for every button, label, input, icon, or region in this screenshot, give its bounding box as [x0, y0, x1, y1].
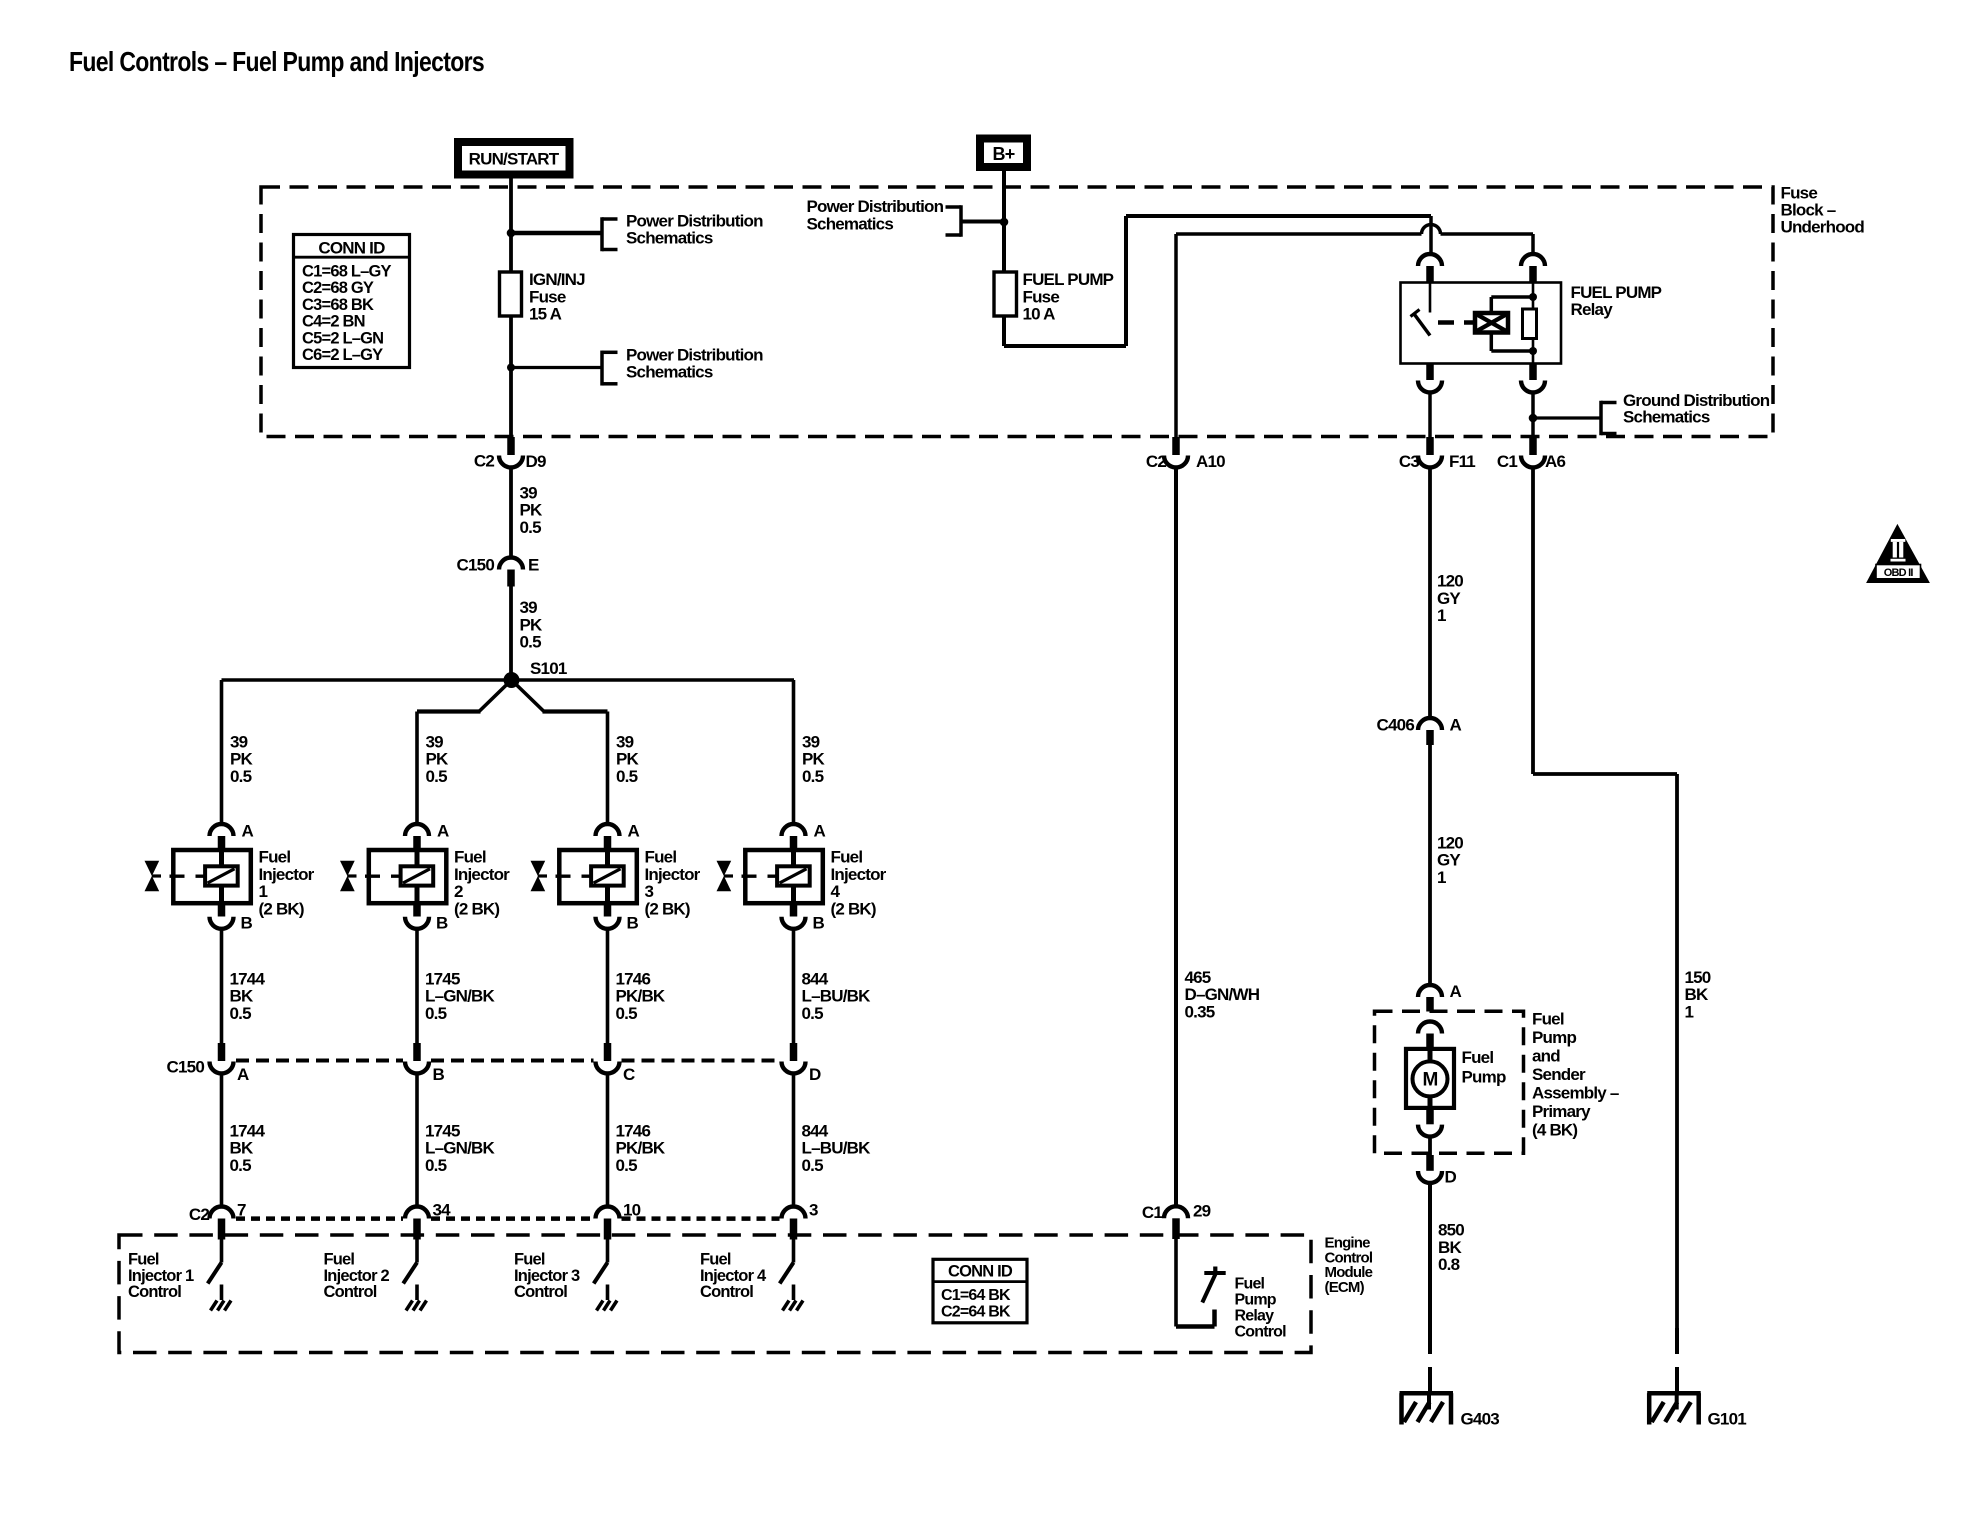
svg-text:39: 39	[426, 732, 444, 751]
svg-text:Injector: Injector	[454, 865, 510, 884]
svg-text:Fuel: Fuel	[1532, 1010, 1564, 1029]
svg-text:Fuel: Fuel	[514, 1251, 545, 1269]
svg-text:0.5: 0.5	[616, 1156, 638, 1175]
svg-text:Fuel Controls – Fuel Pump and: Fuel Controls – Fuel Pump and Injectors	[69, 46, 484, 77]
svg-text:F11: F11	[1449, 452, 1475, 471]
svg-text:G101: G101	[1708, 1410, 1747, 1429]
svg-text:M: M	[1422, 1070, 1437, 1091]
svg-text:0.5: 0.5	[426, 767, 448, 786]
svg-text:Schematics: Schematics	[626, 229, 713, 248]
svg-text:FUEL PUMP: FUEL PUMP	[1571, 283, 1662, 302]
svg-text:0.5: 0.5	[802, 1156, 824, 1175]
svg-text:B: B	[433, 1065, 445, 1084]
svg-text:39: 39	[520, 598, 538, 617]
svg-text:A: A	[242, 822, 254, 841]
svg-text:0.5: 0.5	[230, 767, 252, 786]
svg-text:A: A	[1450, 982, 1462, 1001]
svg-text:CONN ID: CONN ID	[318, 239, 385, 258]
svg-text:Injector: Injector	[259, 865, 315, 884]
svg-text:1744: 1744	[230, 969, 266, 988]
svg-text:1: 1	[1437, 868, 1446, 887]
svg-text:Fuse: Fuse	[529, 287, 566, 306]
svg-text:A: A	[814, 822, 826, 841]
svg-text:1746: 1746	[616, 1121, 651, 1140]
svg-text:D: D	[1445, 1168, 1457, 1187]
svg-text:0.5: 0.5	[802, 767, 824, 786]
svg-text:IGN/INJ: IGN/INJ	[529, 270, 585, 289]
svg-text:(2 BK): (2 BK)	[645, 899, 690, 918]
svg-text:Fuel: Fuel	[324, 1251, 355, 1269]
svg-text:(4 BK): (4 BK)	[1532, 1121, 1577, 1140]
svg-text:PK: PK	[230, 750, 254, 769]
svg-text:C150: C150	[167, 1058, 205, 1077]
svg-text:C1=64 BK: C1=64 BK	[941, 1287, 1011, 1304]
svg-text:BK: BK	[230, 987, 254, 1006]
svg-text:L–GN/BK: L–GN/BK	[425, 1139, 496, 1158]
svg-text:L–GN/BK: L–GN/BK	[425, 987, 496, 1006]
svg-text:C2: C2	[189, 1205, 209, 1224]
svg-text:C: C	[623, 1065, 635, 1084]
svg-text:1745: 1745	[425, 969, 460, 988]
svg-text:A10: A10	[1196, 452, 1225, 471]
svg-text:C1: C1	[1497, 452, 1517, 471]
svg-text:A: A	[628, 822, 640, 841]
svg-text:(2 BK): (2 BK)	[259, 899, 304, 918]
svg-text:1745: 1745	[425, 1121, 460, 1140]
svg-text:C6=2 L–GY: C6=2 L–GY	[302, 346, 383, 364]
svg-text:Primary: Primary	[1532, 1102, 1591, 1121]
svg-text:0.5: 0.5	[425, 1004, 447, 1023]
svg-text:Fuel: Fuel	[1462, 1048, 1494, 1067]
svg-text:Relay: Relay	[1571, 300, 1614, 319]
svg-text:Sender: Sender	[1532, 1065, 1586, 1084]
svg-text:A6: A6	[1545, 452, 1565, 471]
svg-text:PK/BK: PK/BK	[616, 1139, 666, 1158]
svg-text:29: 29	[1193, 1202, 1211, 1221]
svg-text:BK: BK	[1438, 1238, 1462, 1257]
svg-text:Control: Control	[1235, 1324, 1287, 1341]
svg-text:Pump: Pump	[1532, 1028, 1576, 1047]
svg-text:L–BU/BK: L–BU/BK	[802, 1139, 872, 1158]
svg-text:GY: GY	[1437, 851, 1461, 870]
svg-text:Control: Control	[700, 1283, 753, 1301]
svg-text:Schematics: Schematics	[807, 214, 894, 233]
svg-text:844: 844	[802, 1121, 829, 1140]
svg-text:Assembly –: Assembly –	[1532, 1084, 1619, 1103]
svg-text:C2=64 BK: C2=64 BK	[941, 1303, 1011, 1320]
svg-text:G403: G403	[1461, 1410, 1500, 1429]
svg-text:S101: S101	[530, 659, 567, 678]
svg-text:C150: C150	[457, 556, 495, 575]
svg-text:Injector 4: Injector 4	[700, 1267, 767, 1285]
svg-text:Injector 1: Injector 1	[128, 1267, 194, 1285]
svg-text:0.5: 0.5	[520, 518, 542, 537]
svg-text:4: 4	[831, 882, 841, 901]
svg-text:0.5: 0.5	[520, 633, 542, 652]
svg-text:2: 2	[454, 882, 463, 901]
svg-text:(ECM): (ECM)	[1325, 1279, 1365, 1296]
svg-text:Power Distribution: Power Distribution	[626, 211, 763, 230]
svg-text:39: 39	[802, 732, 820, 751]
svg-text:PK: PK	[426, 750, 450, 769]
svg-text:Injector: Injector	[831, 865, 887, 884]
svg-text:D: D	[809, 1065, 821, 1084]
svg-text:Pump: Pump	[1462, 1068, 1506, 1087]
svg-text:L–BU/BK: L–BU/BK	[802, 987, 872, 1006]
svg-text:PK: PK	[520, 615, 544, 634]
svg-text:465: 465	[1185, 968, 1211, 987]
svg-text:A: A	[237, 1065, 249, 1084]
svg-text:0.5: 0.5	[616, 767, 638, 786]
svg-text:0.8: 0.8	[1438, 1255, 1460, 1274]
svg-text:(2 BK): (2 BK)	[831, 899, 876, 918]
svg-text:B: B	[627, 914, 639, 933]
svg-text:C3=68 BK: C3=68 BK	[302, 296, 374, 314]
svg-text:C1=68 L–GY: C1=68 L–GY	[302, 263, 392, 281]
svg-text:Power Distribution: Power Distribution	[807, 197, 944, 216]
svg-text:15 A: 15 A	[529, 305, 562, 324]
svg-text:C2=68 GY: C2=68 GY	[302, 279, 374, 297]
svg-text:PK: PK	[616, 750, 640, 769]
svg-text:1: 1	[259, 882, 268, 901]
svg-text:RUN/START: RUN/START	[469, 150, 560, 169]
svg-text:Control: Control	[514, 1283, 567, 1301]
svg-text:0.35: 0.35	[1185, 1002, 1215, 1021]
svg-text:Fuel: Fuel	[1235, 1276, 1265, 1293]
svg-text:Control: Control	[128, 1283, 181, 1301]
svg-text:Schematics: Schematics	[626, 363, 713, 382]
svg-text:B: B	[436, 914, 448, 933]
svg-text:A: A	[437, 822, 449, 841]
svg-text:1746: 1746	[616, 969, 651, 988]
svg-text:B+: B+	[993, 144, 1015, 164]
svg-text:FUEL PUMP: FUEL PUMP	[1023, 270, 1114, 289]
svg-text:C4=2 BN: C4=2 BN	[302, 313, 365, 331]
svg-text:844: 844	[802, 969, 829, 988]
svg-text:Injector 3: Injector 3	[514, 1267, 580, 1285]
svg-text:Schematics: Schematics	[1623, 408, 1710, 427]
svg-text:and: and	[1532, 1047, 1560, 1066]
svg-text:0.5: 0.5	[230, 1004, 252, 1023]
svg-text:Fuel: Fuel	[128, 1251, 159, 1269]
svg-text:D9: D9	[526, 452, 546, 471]
svg-text:150: 150	[1685, 968, 1711, 987]
svg-text:PK: PK	[520, 501, 544, 520]
svg-text:1: 1	[1685, 1002, 1694, 1021]
svg-text:Fuse: Fuse	[1023, 287, 1060, 306]
svg-text:A: A	[1450, 716, 1462, 735]
svg-text:Fuel: Fuel	[259, 848, 291, 867]
svg-text:CONN ID: CONN ID	[948, 1263, 1013, 1281]
svg-text:0.5: 0.5	[802, 1004, 824, 1023]
svg-text:0.5: 0.5	[230, 1156, 252, 1175]
svg-text:Injector 2: Injector 2	[324, 1267, 390, 1285]
svg-text:120: 120	[1437, 572, 1463, 591]
svg-text:120: 120	[1437, 833, 1463, 852]
svg-text:Fuel: Fuel	[645, 848, 677, 867]
svg-text:Pump: Pump	[1235, 1292, 1277, 1309]
svg-text:B: B	[813, 914, 825, 933]
svg-text:PK: PK	[802, 750, 826, 769]
svg-text:C1: C1	[1142, 1203, 1162, 1222]
svg-text:1744: 1744	[230, 1121, 266, 1140]
svg-text:39: 39	[616, 732, 634, 751]
svg-text:(2 BK): (2 BK)	[454, 899, 499, 918]
svg-text:Relay: Relay	[1235, 1308, 1275, 1325]
svg-text:Injector: Injector	[645, 865, 701, 884]
svg-text:Control: Control	[324, 1283, 377, 1301]
svg-text:E: E	[528, 556, 539, 575]
svg-text:B: B	[241, 914, 253, 933]
svg-text:OBD II: OBD II	[1884, 567, 1914, 579]
svg-text:Underhood: Underhood	[1781, 217, 1865, 236]
svg-text:3: 3	[645, 882, 654, 901]
svg-text:Fuel: Fuel	[700, 1251, 731, 1269]
svg-text:0.5: 0.5	[425, 1156, 447, 1175]
svg-text:C406: C406	[1377, 716, 1415, 735]
svg-text:39: 39	[230, 732, 248, 751]
svg-text:BK: BK	[1685, 985, 1709, 1004]
svg-text:Fuel: Fuel	[831, 848, 863, 867]
svg-text:BK: BK	[230, 1139, 254, 1158]
svg-text:Power Distribution: Power Distribution	[626, 345, 763, 364]
svg-text:GY: GY	[1437, 589, 1461, 608]
svg-text:C3: C3	[1399, 452, 1419, 471]
svg-text:39: 39	[520, 483, 538, 502]
svg-text:10 A: 10 A	[1023, 305, 1056, 324]
svg-text:C2: C2	[1146, 452, 1166, 471]
svg-text:PK/BK: PK/BK	[616, 987, 666, 1006]
svg-text:C5=2 L–GN: C5=2 L–GN	[302, 329, 383, 347]
svg-text:1: 1	[1437, 606, 1446, 625]
svg-text:3: 3	[809, 1201, 818, 1220]
svg-text:850: 850	[1438, 1221, 1464, 1240]
svg-text:D–GN/WH: D–GN/WH	[1185, 985, 1260, 1004]
svg-text:Fuel: Fuel	[454, 848, 486, 867]
svg-text:0.5: 0.5	[616, 1004, 638, 1023]
svg-text:C2: C2	[474, 452, 494, 471]
